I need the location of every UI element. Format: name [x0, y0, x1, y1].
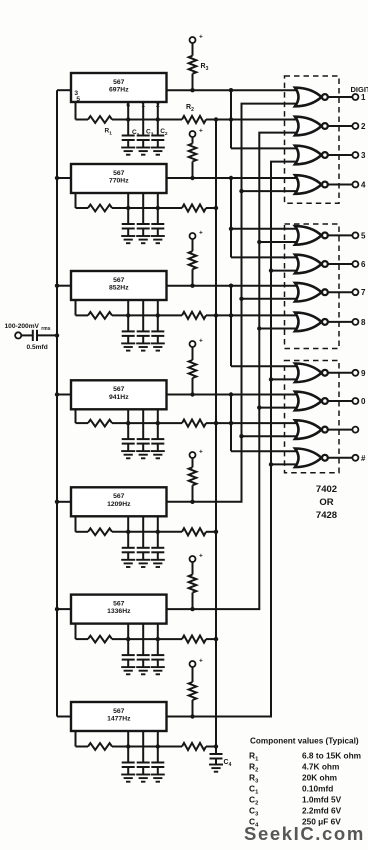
node C4-bus junction U4	[214, 421, 218, 425]
svg-text:2: 2	[156, 102, 160, 109]
tone decoder U3 567 852Hz	[71, 271, 167, 300]
svg-text:rms: rms	[41, 326, 50, 332]
wire pin5 drop U7	[76, 731, 89, 747]
svg-text:7402: 7402	[316, 484, 337, 495]
node pin2 junction U6	[156, 637, 160, 641]
wire pin3 stub to 1336Hz decoder	[57, 608, 73, 610]
ground C2 of U6	[151, 667, 165, 674]
node pin6 junction U3	[126, 313, 130, 317]
ground C1 of U4	[121, 451, 135, 458]
wire gate 8 output	[329, 321, 353, 323]
svg-text:9: 9	[361, 369, 366, 378]
wire output 697Hz to gate row	[167, 89, 300, 91]
wire 1477 to gate 9 bottom	[271, 378, 299, 380]
resistor pullup for U4	[189, 347, 197, 395]
resistor pullup for U3	[189, 239, 197, 286]
wire gate 3 output	[329, 154, 353, 156]
node output descent junction 770Hz	[229, 176, 233, 180]
node 1336 bus junction gate 0	[257, 405, 261, 409]
node pin6 junction U4	[126, 421, 130, 425]
ground C2 of U2	[151, 236, 165, 243]
resistor R1 timing U7	[88, 743, 128, 750]
svg-text:1: 1	[361, 93, 366, 102]
wire pin5 drop U1	[76, 102, 89, 120]
NOR gate star	[295, 420, 328, 439]
output terminal #	[352, 455, 358, 461]
node C4-bus junction U7	[214, 744, 218, 748]
node output pullup junction U3	[190, 284, 194, 288]
svg-text:100-200mV: 100-200mV	[5, 323, 40, 330]
power terminal + for U4	[190, 338, 204, 348]
capacitor C1 of U2	[122, 193, 135, 236]
svg-text:+: +	[199, 553, 203, 560]
resistor R1 timing U4	[88, 420, 128, 427]
capacitor C2 of U3	[151, 300, 164, 343]
capacitor C3 of U1	[137, 102, 150, 148]
wire output 1209Hz column bus up to gates	[167, 104, 300, 502]
svg-text:567: 567	[113, 600, 125, 607]
node 1209 bus junction gate 4	[239, 189, 243, 193]
wire under line U7	[128, 746, 158, 748]
wire gate star output	[329, 429, 353, 431]
node 1209 bus junction gate star	[239, 434, 243, 438]
svg-text:+: +	[199, 338, 203, 345]
node output pullup junction U4	[190, 392, 194, 396]
node output pullup junction U6	[190, 607, 194, 611]
capacitor C3 of U4	[137, 409, 150, 451]
ground C3 of U7	[136, 775, 150, 782]
NOR gate 7	[295, 283, 328, 302]
ground C1 of U5	[121, 560, 135, 567]
svg-text:+: +	[199, 34, 203, 41]
node 1477 bus junction gate 9	[269, 377, 273, 381]
ground C3 of U1	[136, 148, 150, 155]
wire 1336 to gate 0 bottom	[259, 407, 299, 409]
node pin2 junction U3	[156, 313, 160, 317]
tone decoder U6 567 1336Hz	[71, 595, 167, 624]
capacitor C1 of U6	[122, 624, 135, 668]
node input bus junction 852Hz	[55, 284, 59, 288]
capacitor C2 of U5	[151, 516, 164, 560]
output terminal 9	[352, 370, 358, 376]
NOR gate 0	[295, 392, 328, 411]
NOR gate 6	[295, 255, 328, 274]
output terminal 2	[352, 123, 358, 129]
node C4-bus junction U5	[214, 530, 218, 534]
node pin2 junction U4	[156, 421, 160, 425]
wire 697 to gate3 top	[231, 147, 299, 149]
svg-text:+: +	[199, 128, 203, 135]
wire under line U3	[128, 314, 158, 316]
wire pin5 drop U6	[76, 624, 89, 640]
capacitor C3 of U3	[137, 300, 150, 343]
svg-text:+: +	[199, 449, 203, 456]
svg-text:+: +	[199, 230, 203, 237]
ground C1 of U2	[121, 236, 135, 243]
wire C4 bus	[215, 120, 217, 755]
capacitor C2 of U4	[151, 409, 164, 451]
node input bus junction 770Hz	[55, 176, 59, 180]
node 697 gate2 junction	[229, 117, 233, 121]
wire 1209 to gate 4 bottom	[242, 190, 300, 192]
capacitor C1 of U3	[122, 300, 135, 343]
resistor R2 feedback U6	[158, 636, 216, 643]
resistor R1 timing U2	[88, 205, 128, 212]
node pin2 junction U2	[156, 206, 160, 210]
wire 1209 to gate star bottom	[242, 435, 300, 437]
node pin6 junction U5	[126, 530, 130, 534]
svg-text:1.0mfd 5V: 1.0mfd 5V	[302, 795, 342, 805]
wire 1477 to gate # bottom	[271, 463, 299, 465]
label input level 100-200mVrms	[5, 323, 51, 332]
output terminal 0	[352, 398, 358, 404]
wire input terminal lead	[21, 334, 32, 336]
svg-text:250 μF 6V: 250 μF 6V	[302, 817, 341, 827]
capacitor C4	[210, 754, 223, 765]
capacitor C3 of U7	[137, 731, 150, 775]
output terminal 3	[352, 152, 358, 158]
output terminal 1	[352, 94, 358, 100]
wire 941 descent	[230, 395, 232, 452]
capacitor C3 of U2	[137, 193, 150, 236]
wire gate 6 output	[329, 263, 353, 265]
svg-text:567: 567	[113, 170, 125, 177]
node C4-bus junction U6	[214, 637, 218, 641]
node output descent junction 941Hz	[229, 392, 233, 396]
node C4-bus junction U1	[214, 117, 218, 121]
NOR gate 1	[295, 88, 328, 107]
ground C1 of U3	[121, 343, 135, 350]
node output pullup junction U5	[190, 500, 194, 504]
wire gate # output	[329, 457, 353, 459]
ground C3 of U6	[136, 667, 150, 674]
NOR gate 5	[295, 226, 328, 245]
output terminal 4	[352, 182, 358, 188]
wire 941 to gate-hash top	[231, 450, 299, 452]
svg-text:3: 3	[361, 151, 366, 160]
output terminal 7	[352, 289, 358, 295]
svg-text:2.2mfd 6V: 2.2mfd 6V	[302, 806, 342, 816]
wire output 1336Hz column bus up to gates	[167, 133, 300, 609]
output terminal 5	[352, 232, 358, 238]
svg-text:6: 6	[361, 260, 366, 269]
resistor R2 feedback U5	[158, 528, 216, 535]
node 1336 bus junction gate 8	[257, 326, 261, 330]
dashed outline quad NOR IC 2	[285, 224, 340, 349]
svg-text:7: 7	[361, 288, 366, 297]
wire pin5 drop U2	[76, 193, 89, 208]
wire 852 descent	[230, 286, 232, 367]
power terminal + for U6	[190, 553, 204, 563]
svg-text:7428: 7428	[316, 510, 337, 521]
node 1477 bus junction gate 6	[269, 268, 273, 272]
ground C2 of U1	[151, 148, 165, 155]
svg-text:1: 1	[141, 102, 145, 109]
svg-text:2: 2	[361, 122, 366, 131]
output terminal 6	[352, 261, 358, 267]
wire pin3 stub to 1477Hz decoder	[57, 716, 73, 718]
NOR gate 4	[295, 175, 328, 194]
wire 1477 to gate 6 bottom	[271, 270, 299, 272]
node 1477 bus junction gate #	[269, 462, 273, 466]
ground C2 of U3	[151, 343, 165, 350]
resistor R1 timing U1	[88, 116, 128, 123]
tone decoder U1 567 697Hz	[71, 73, 167, 102]
capacitor C2 of U1	[151, 102, 164, 148]
node C4-bus junction U3	[214, 313, 218, 317]
capacitor C1 of U7	[122, 731, 135, 775]
power terminal + for U7	[190, 658, 204, 668]
svg-text:1477Hz: 1477Hz	[107, 716, 131, 723]
node output descent junction 852Hz	[229, 284, 233, 288]
wire 1209 to gate 7 bottom	[242, 298, 300, 300]
wire gate 7 output	[329, 291, 353, 293]
node pin6 junction U6	[126, 637, 130, 641]
NOR gate 3	[295, 146, 328, 165]
svg-text:4.7K ohm: 4.7K ohm	[302, 762, 339, 772]
wire under line U4	[128, 422, 158, 424]
ground C3 of U4	[136, 451, 150, 458]
node pin2 junction U1	[156, 117, 160, 121]
node pin6 junction U7	[126, 744, 130, 748]
svg-text:OR: OR	[319, 497, 333, 508]
output terminal 8	[352, 319, 358, 325]
capacitor C1 of U4	[122, 409, 135, 451]
resistor R2 feedback U2	[158, 204, 216, 211]
wire gate 0 output	[329, 400, 353, 402]
node output pullup junction U1	[190, 88, 194, 92]
svg-text:0.10mfd: 0.10mfd	[302, 784, 333, 794]
node output pullup junction U2	[190, 176, 194, 180]
resistor pullup for U5	[189, 458, 197, 502]
svg-text:DIGIT: DIGIT	[351, 85, 368, 94]
ground C2 of U5	[151, 560, 165, 567]
capacitor C3 of U5	[137, 516, 150, 560]
node input bus junction 941Hz	[55, 392, 59, 396]
svg-text:567: 567	[113, 493, 125, 500]
resistor R2 feedback U3	[158, 312, 299, 319]
ground C2 of U7	[151, 775, 165, 782]
svg-text:567: 567	[113, 79, 125, 86]
wire pin3 stub to 1209Hz decoder	[57, 501, 73, 503]
svg-text:6: 6	[126, 102, 130, 109]
svg-text:20K ohm: 20K ohm	[302, 773, 337, 783]
wire under line U6	[128, 638, 158, 640]
svg-text:941Hz: 941Hz	[109, 394, 129, 401]
wire pin5 drop U4	[76, 409, 89, 423]
svg-text:Component values (Typical): Component values (Typical)	[250, 737, 359, 746]
tone decoder U7 567 1477Hz	[71, 702, 167, 731]
NOR gate 9	[295, 364, 328, 383]
svg-text:4: 4	[361, 181, 366, 190]
resistor R3 pullup	[189, 43, 197, 90]
node output descent junction 697Hz	[229, 88, 233, 92]
svg-text:5: 5	[361, 231, 366, 240]
resistor R2 feedback	[158, 116, 299, 123]
resistor R1 timing U5	[88, 528, 128, 535]
node output pullup junction U7	[190, 714, 194, 718]
wire gate 2 output	[329, 125, 353, 127]
tone decoder U2 567 770Hz	[71, 164, 167, 193]
ground C1 of U6	[121, 667, 135, 674]
svg-text:8: 8	[361, 318, 366, 327]
wire under line U2	[128, 207, 158, 209]
resistor R2 feedback U4	[158, 420, 299, 427]
capacitor C1 of U5	[122, 516, 135, 560]
ground C3 of U5	[136, 560, 150, 567]
wire input bus vertical	[56, 90, 58, 716]
resistor R1 timing U3	[88, 312, 128, 319]
svg-text:567: 567	[113, 386, 125, 393]
dashed outline quad NOR IC 3	[285, 361, 340, 473]
label 7402 OR 7428	[316, 484, 337, 521]
ground C1 of U7	[121, 775, 135, 782]
node pin2 junction U5	[156, 530, 160, 534]
wire 1336 to gate 5 bottom	[259, 241, 299, 243]
resistor pullup for U7	[189, 667, 197, 717]
ground C4	[209, 765, 223, 772]
svg-text:852Hz: 852Hz	[109, 285, 129, 292]
tone decoder U5 567 1209Hz	[71, 487, 167, 516]
wire 852 to gate9 top	[231, 365, 299, 367]
svg-text:567: 567	[113, 277, 125, 284]
tone decoder U4 567 941Hz	[71, 380, 167, 409]
node input junction	[55, 333, 59, 337]
capacitor C3 of U6	[137, 624, 150, 668]
node pin6 junction U1	[126, 117, 130, 121]
resistor R2 feedback U7	[158, 743, 216, 750]
wire pin5 drop U5	[76, 516, 89, 532]
svg-text:5: 5	[76, 96, 80, 103]
node C4-bus junction U2	[214, 206, 218, 210]
resistor R1 timing U6	[88, 636, 128, 643]
svg-text:0: 0	[361, 397, 366, 406]
ground C2 of U4	[151, 451, 165, 458]
node pin2 junction U7	[156, 744, 160, 748]
svg-text:+: +	[199, 658, 203, 665]
wire 1336 to gate 8 bottom	[259, 328, 299, 330]
svg-text:#: #	[361, 454, 366, 463]
wire under line U1	[128, 119, 158, 121]
svg-text:1336Hz: 1336Hz	[107, 608, 131, 615]
ground C3 of U3	[136, 343, 150, 350]
node 941 gate-star junction	[229, 421, 233, 425]
wire 770 to gate5 top	[231, 228, 299, 230]
node input bus junction 1209Hz	[55, 500, 59, 504]
node 852 gate8 junction	[229, 313, 233, 317]
capacitor C2 of U6	[151, 624, 164, 668]
wire pin3 stub to 697Hz decoder	[57, 89, 73, 91]
capacitor C2 of U2	[151, 193, 164, 236]
wire gate 9 output	[329, 372, 353, 374]
ground C3 of U2	[136, 236, 150, 243]
power terminal + for U2	[190, 128, 204, 138]
node 770 gate5 junction	[229, 227, 233, 231]
wire pin3 stub to 941Hz decoder	[57, 394, 73, 396]
wire gate 5 output	[329, 234, 353, 236]
node input bus junction 1336Hz	[55, 607, 59, 611]
wire 770 to gate6 top	[231, 256, 299, 258]
svg-text:0.5mfd: 0.5mfd	[27, 344, 48, 351]
output terminal star	[352, 427, 358, 433]
wire 697 descent	[230, 90, 232, 148]
wire output 852Hz to gate row	[167, 285, 300, 287]
wire 770 descent	[230, 178, 232, 257]
svg-text:1209Hz: 1209Hz	[107, 501, 131, 508]
svg-text:697Hz: 697Hz	[109, 87, 129, 94]
wire pin3 stub to 852Hz decoder	[57, 285, 73, 287]
capacitor C2 of U7	[151, 731, 164, 775]
dashed outline quad NOR IC 1	[285, 76, 340, 203]
svg-text:6.8 to 15K ohm: 6.8 to 15K ohm	[302, 751, 361, 761]
svg-text:567: 567	[113, 708, 125, 715]
power terminal + for U1	[190, 34, 204, 44]
wire under line U5	[128, 531, 158, 533]
power terminal + for U3	[190, 230, 204, 240]
NOR gate #	[295, 449, 328, 468]
node 1209 bus junction gate 7	[239, 297, 243, 301]
wire output 1477Hz column bus up to gates	[167, 162, 300, 717]
NOR gate 2	[295, 117, 328, 136]
power terminal + for U5	[190, 449, 204, 459]
table component values	[249, 737, 361, 829]
svg-text:770Hz: 770Hz	[109, 178, 129, 185]
node pin6 junction U2	[126, 206, 130, 210]
resistor pullup for U6	[189, 562, 197, 609]
capacitor C1 of U1	[122, 102, 135, 148]
ground C1 of U1	[121, 148, 135, 155]
input terminal	[15, 332, 21, 338]
wire pin3 stub to 770Hz decoder	[57, 177, 73, 179]
resistor pullup for U2	[189, 137, 197, 178]
NOR gate 8	[295, 313, 328, 332]
wire gate 4 output	[329, 184, 353, 186]
wire pin5 drop U3	[76, 300, 89, 315]
node 1336 bus junction gate 5	[257, 240, 261, 244]
wire gate 1 output	[329, 96, 353, 98]
capacitor 0.5mfd input coupling	[33, 330, 57, 341]
wire output 941Hz to gate row	[167, 394, 300, 396]
wire output 770Hz to gate row	[167, 177, 300, 179]
